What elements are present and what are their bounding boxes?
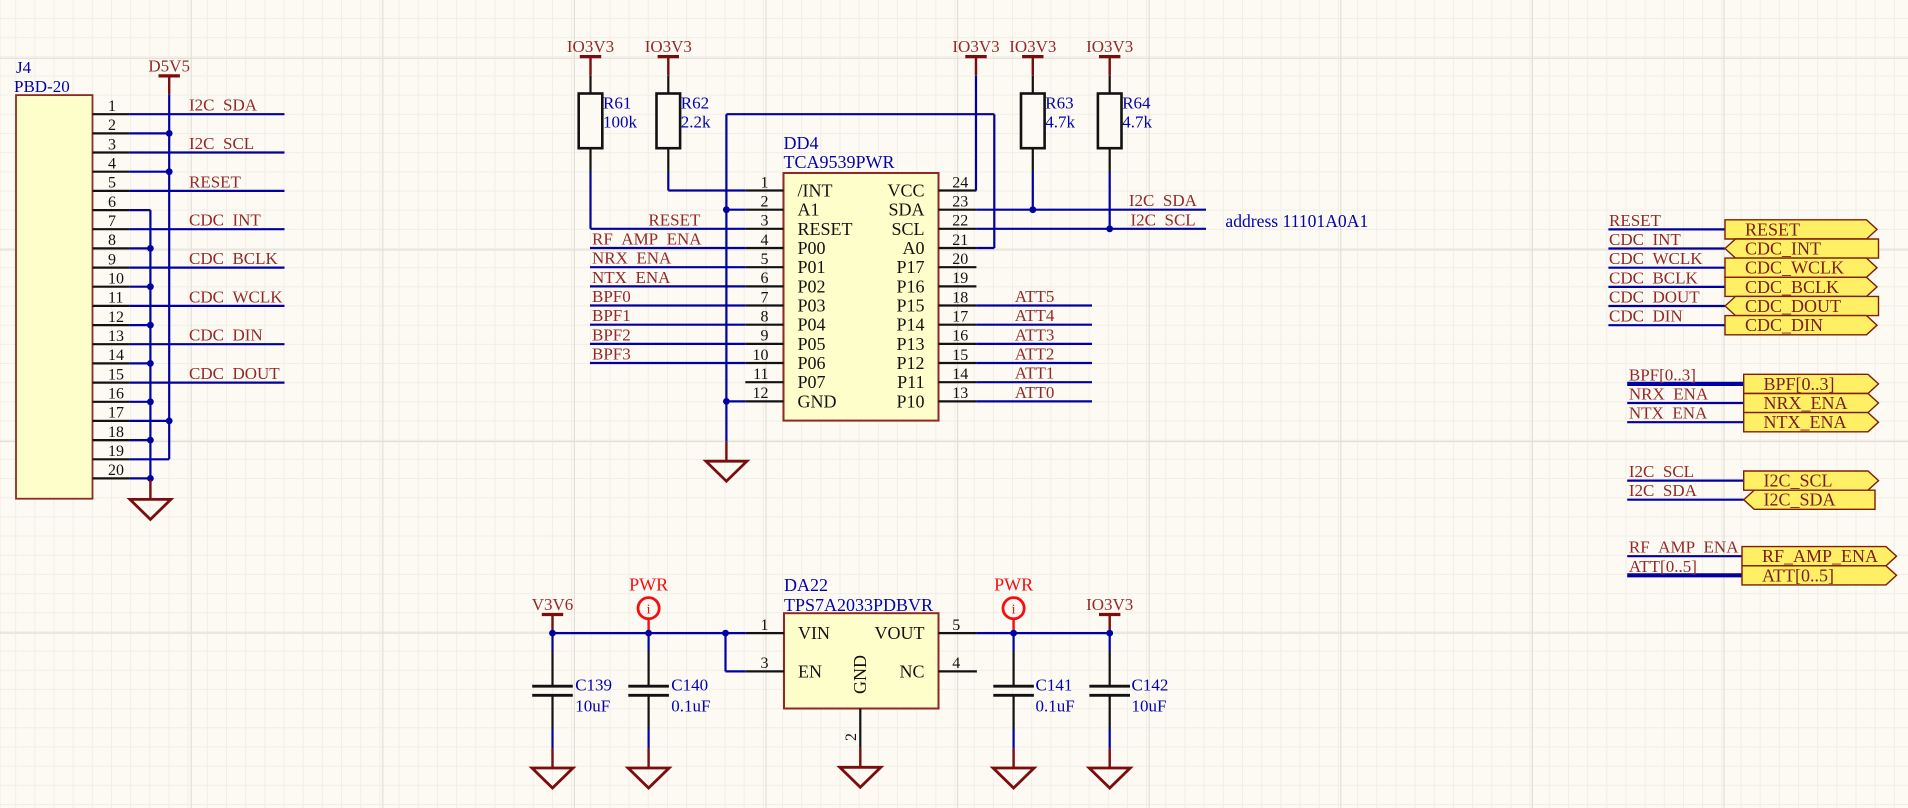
svg-text:9: 9 xyxy=(108,251,116,268)
capacitor C140 plates xyxy=(628,685,669,688)
svg-text:11: 11 xyxy=(108,290,123,307)
wire GND vertical rail from J4 pin 6 xyxy=(130,209,151,211)
svg-text:0.1uF: 0.1uF xyxy=(1036,697,1075,716)
svg-text:BPF[0..3]: BPF[0..3] xyxy=(1629,365,1696,384)
wire I2C_SDA from DD4 pin 23 xyxy=(976,209,1206,211)
wire DD4 pin 12 GND stub xyxy=(726,400,745,402)
wire to port NTX_ENA xyxy=(1627,421,1744,423)
svg-text:GND: GND xyxy=(850,655,870,694)
junction at pin 12 GND rail xyxy=(147,322,154,329)
svg-text:P12: P12 xyxy=(896,353,924,373)
wire I2C_SDA from J4 pin 1 xyxy=(130,113,285,115)
wire R61 to RESET net (DD4 pin 3) xyxy=(589,172,591,229)
junction at pin 18 GND rail xyxy=(147,437,154,444)
svg-text:7: 7 xyxy=(108,213,116,230)
svg-text:5: 5 xyxy=(108,175,116,192)
svg-text:I2C SCL: I2C SCL xyxy=(1131,210,1196,229)
svg-text:CDC_DOUT: CDC_DOUT xyxy=(1745,296,1841,316)
wire J4 pin 19 stub to D5V5 rail xyxy=(130,458,170,460)
junction at pin 4 rail xyxy=(166,168,173,175)
svg-text:RF AMP ENA: RF AMP ENA xyxy=(1629,538,1739,557)
DD4 pin 20 (P17) xyxy=(939,266,977,268)
svg-text:CDC DOUT: CDC DOUT xyxy=(189,364,280,383)
svg-text:2: 2 xyxy=(761,194,769,211)
svg-text:I2C_SCL: I2C_SCL xyxy=(1764,471,1833,491)
resistor R63 4.7k xyxy=(1032,76,1034,94)
port CDC_INT xyxy=(1725,239,1879,258)
svg-text:ATT[0..5]: ATT[0..5] xyxy=(1629,557,1697,576)
DD4 pin 5 (P01) xyxy=(745,266,783,268)
svg-text:BPF0: BPF0 xyxy=(592,287,631,306)
svg-text:R64: R64 xyxy=(1122,94,1151,113)
svg-text:VOUT: VOUT xyxy=(875,623,925,643)
wire R62 to /INT (DD4 pin 1) xyxy=(667,172,669,191)
svg-text:17: 17 xyxy=(108,405,124,422)
svg-text:C141: C141 xyxy=(1036,676,1073,695)
svg-text:1: 1 xyxy=(761,617,769,634)
wire to port I2C_SCL xyxy=(1627,480,1744,482)
connector J4 body xyxy=(16,95,93,499)
wire R63 to I2C_SDA xyxy=(1032,172,1034,210)
svg-text:I2C SDA: I2C SDA xyxy=(189,96,258,115)
svg-text:23: 23 xyxy=(952,194,968,211)
svg-text:3: 3 xyxy=(761,213,769,230)
svg-text:IO3V3: IO3V3 xyxy=(1086,37,1133,56)
svg-text:ATT2: ATT2 xyxy=(1015,345,1055,364)
svg-text:RESET: RESET xyxy=(648,210,701,229)
wire to DD4 pin 21 A0 xyxy=(976,247,994,249)
capacitor C139 lead lower xyxy=(551,697,553,730)
svg-text:15: 15 xyxy=(952,347,968,364)
svg-text:ATT[0..5]: ATT[0..5] xyxy=(1762,565,1834,585)
wire J4 pin 20 to GND rail xyxy=(130,477,151,479)
J4 pin 11 xyxy=(93,305,130,307)
svg-text:address 11101A0A1: address 11101A0A1 xyxy=(1225,211,1368,231)
svg-text:9: 9 xyxy=(761,328,769,345)
DA22 pin 3 EN xyxy=(746,670,784,672)
junction at pin 8 GND rail xyxy=(147,245,154,252)
svg-text:PBD-20: PBD-20 xyxy=(14,77,70,96)
svg-text:i: i xyxy=(647,603,651,618)
svg-text:P03: P03 xyxy=(798,296,826,316)
ground symbol below J4 xyxy=(130,480,171,519)
svg-text:I2C SCL: I2C SCL xyxy=(1629,462,1694,481)
svg-text:13: 13 xyxy=(108,328,124,345)
J4 pin 15 xyxy=(93,382,130,384)
svg-text:10: 10 xyxy=(108,271,124,288)
junction at pin 2 rail xyxy=(166,130,173,137)
wire GND net vertical at x726 xyxy=(725,114,727,442)
svg-text:VCC: VCC xyxy=(887,181,924,201)
wire to port RESET xyxy=(1608,228,1725,230)
DD4 pin 2 (A1) xyxy=(745,209,783,211)
junction V3V6 xyxy=(549,630,556,637)
wire RESET from J4 pin 5 xyxy=(130,190,285,192)
svg-text:17: 17 xyxy=(952,309,968,326)
J4 pin 7 xyxy=(93,228,130,230)
DA22 pin 1 VIN xyxy=(746,632,784,634)
port RESET xyxy=(1725,220,1877,239)
junction IO3V3 out xyxy=(1106,630,1113,637)
svg-text:P14: P14 xyxy=(896,315,924,335)
svg-text:CDC DIN: CDC DIN xyxy=(189,326,263,345)
svg-text:5: 5 xyxy=(952,617,960,634)
port CDC_DOUT xyxy=(1725,296,1879,315)
wire J4 pin 14 to GND rail xyxy=(130,362,151,364)
wire ATT1 from DD4 pin 14 xyxy=(976,381,1092,383)
port BPF[0..3] xyxy=(1744,374,1879,393)
DD4 pin 22 (SCL) xyxy=(939,228,977,230)
svg-text:3: 3 xyxy=(761,655,769,672)
capacitor C142 lead lower xyxy=(1109,697,1111,730)
svg-text:6: 6 xyxy=(761,270,769,287)
svg-text:BPF3: BPF3 xyxy=(592,345,631,364)
svg-text:D5V5: D5V5 xyxy=(148,56,190,75)
wire CDC_INT from J4 pin 7 xyxy=(130,228,285,230)
svg-text:SDA: SDA xyxy=(888,200,924,220)
DD4 pin 3 (RESET) xyxy=(745,228,783,230)
svg-text:10: 10 xyxy=(753,347,769,364)
svg-text:I2C SCL: I2C SCL xyxy=(189,134,254,153)
svg-text:4.7k: 4.7k xyxy=(1122,113,1152,132)
svg-text:P11: P11 xyxy=(897,372,924,392)
svg-text:RESET: RESET xyxy=(798,219,853,239)
svg-text:RF_AMP_ENA: RF_AMP_ENA xyxy=(1762,546,1878,566)
svg-text:P16: P16 xyxy=(896,276,924,296)
svg-text:19: 19 xyxy=(952,270,968,287)
svg-text:100k: 100k xyxy=(603,113,638,132)
wire RF_AMP_ENA to DD4 pin 4 xyxy=(590,247,745,249)
ground below C140 xyxy=(628,749,669,788)
DD4 pin 14 (P11) xyxy=(939,381,977,383)
wire DD4 pin 2 A1 stub xyxy=(726,209,745,211)
svg-text:4.7k: 4.7k xyxy=(1045,113,1075,132)
capacitor C141 lead lower xyxy=(1012,697,1014,730)
wire BPF3 to DD4 pin 10 xyxy=(590,362,745,364)
svg-text:/INT: /INT xyxy=(798,181,833,201)
junction at pin 20 GND rail xyxy=(147,475,154,482)
wire to port CDC_INT xyxy=(1608,247,1725,249)
svg-text:RESET: RESET xyxy=(189,172,242,191)
svg-text:A0: A0 xyxy=(903,238,925,258)
svg-text:1: 1 xyxy=(108,98,116,115)
svg-text:CDC WCLK: CDC WCLK xyxy=(189,287,283,306)
junction at pin 10 GND rail xyxy=(147,283,154,290)
wire J4 pin 18 to GND rail xyxy=(130,439,151,441)
svg-text:20: 20 xyxy=(952,251,968,268)
svg-text:CDC DOUT: CDC DOUT xyxy=(1609,288,1700,307)
svg-text:14: 14 xyxy=(108,347,124,364)
wire BPF0 to DD4 pin 7 xyxy=(590,304,745,306)
J4 pin 14 xyxy=(93,362,130,364)
DD4 pin 24 (VCC) xyxy=(939,189,977,191)
ground below C139 xyxy=(532,749,573,788)
DD4 pin 17 (P14) xyxy=(939,324,977,326)
svg-text:NTX ENA: NTX ENA xyxy=(1629,404,1708,423)
DD4 pin 8 (P04) xyxy=(745,324,783,326)
svg-text:ATT3: ATT3 xyxy=(1015,325,1055,344)
svg-text:CDC BCLK: CDC BCLK xyxy=(189,249,279,268)
svg-text:VIN: VIN xyxy=(798,623,830,643)
J4 pin 20 xyxy=(93,477,130,479)
capacitor C139 plates xyxy=(532,685,573,688)
svg-text:P07: P07 xyxy=(798,372,826,392)
ground below C141 xyxy=(993,749,1034,788)
svg-text:P10: P10 xyxy=(896,391,924,411)
DD4 pin 19 (P16) xyxy=(939,285,977,287)
IC DA22 body xyxy=(784,613,939,708)
svg-text:C142: C142 xyxy=(1132,676,1169,695)
J4 pin 13 xyxy=(93,343,130,345)
wire CDC_WCLK from J4 pin 11 xyxy=(130,305,285,307)
svg-text:2: 2 xyxy=(843,733,860,741)
J4 pin 16 xyxy=(93,401,130,403)
svg-text:2.2k: 2.2k xyxy=(681,113,711,132)
J4 pin 18 xyxy=(93,439,130,441)
svg-text:CDC INT: CDC INT xyxy=(1609,230,1681,249)
wire J4 pin 17 to D5V5 rail xyxy=(130,420,170,422)
junction R63 SDA xyxy=(1029,206,1036,213)
wire CDC_BCLK from J4 pin 9 xyxy=(130,267,285,269)
DD4 pin 10 (P06) xyxy=(745,362,783,364)
svg-text:IO3V3: IO3V3 xyxy=(1009,37,1056,56)
wire to port I2C_SDA xyxy=(1627,499,1744,501)
svg-text:15: 15 xyxy=(108,366,124,383)
wire I2C_SCL from J4 pin 3 xyxy=(130,151,285,153)
DA22 pin 2 GND lead xyxy=(859,709,861,748)
wire J4 pin 12 to GND rail xyxy=(130,324,151,326)
svg-text:22: 22 xyxy=(952,213,968,230)
wire NRX_ENA to DD4 pin 5 xyxy=(590,266,745,268)
svg-text:12: 12 xyxy=(753,385,769,402)
svg-text:8: 8 xyxy=(108,232,116,249)
svg-text:R63: R63 xyxy=(1045,94,1073,113)
capacitor C140 lead lower xyxy=(647,697,649,730)
wire VOUT to IO3V3 xyxy=(977,632,1110,634)
port I2C_SDA xyxy=(1744,490,1875,509)
J4 pin 12 xyxy=(93,324,130,326)
svg-text:5: 5 xyxy=(761,251,769,268)
J4 pin 17 xyxy=(93,420,130,422)
junction PWR2 xyxy=(1010,630,1017,637)
svg-text:P15: P15 xyxy=(896,296,924,316)
svg-text:18: 18 xyxy=(952,289,968,306)
svg-text:0.1uF: 0.1uF xyxy=(671,697,710,716)
svg-text:ATT5: ATT5 xyxy=(1015,287,1055,306)
wire to port CDC_WCLK xyxy=(1608,267,1725,269)
svg-text:CDC DIN: CDC DIN xyxy=(1609,307,1683,326)
svg-text:CDC WCLK: CDC WCLK xyxy=(1609,249,1703,268)
svg-text:A1: A1 xyxy=(798,200,820,220)
J4 pin 19 xyxy=(93,458,130,460)
port NRX_ENA xyxy=(1744,394,1879,413)
svg-text:RF AMP ENA: RF AMP ENA xyxy=(592,230,702,249)
svg-text:P00: P00 xyxy=(798,238,826,258)
wire J4 pin 16 to GND rail xyxy=(130,401,151,403)
svg-text:IO3V3: IO3V3 xyxy=(952,37,999,56)
svg-text:C140: C140 xyxy=(671,676,708,695)
svg-text:SCL: SCL xyxy=(891,219,924,239)
wire J4 pin 10 to GND rail xyxy=(130,286,151,288)
J4 pin 8 xyxy=(93,247,130,249)
svg-text:2: 2 xyxy=(108,117,116,134)
wire EN branch xyxy=(724,633,726,671)
svg-text:RESET: RESET xyxy=(1609,211,1662,230)
svg-text:PWR: PWR xyxy=(994,575,1033,595)
resistor R62 2.2k xyxy=(667,76,669,94)
capacitor C139 lead upper xyxy=(551,633,553,651)
J4 pin 9 xyxy=(93,267,130,269)
capacitor C141 lead upper xyxy=(1012,633,1014,651)
DA22 pin 4 NC xyxy=(939,670,977,672)
wire NTX_ENA to DD4 pin 6 xyxy=(590,285,745,287)
svg-text:8: 8 xyxy=(761,309,769,326)
DD4 pin 21 (A0) xyxy=(939,247,977,249)
svg-text:P01: P01 xyxy=(798,257,826,277)
capacitor C142 plates xyxy=(1089,685,1130,688)
svg-text:R62: R62 xyxy=(681,94,709,113)
wire to port NRX_ENA xyxy=(1627,402,1744,404)
DD4 pin 12 (GND) xyxy=(745,400,783,402)
svg-text:TPS7A2033PDBVR: TPS7A2033PDBVR xyxy=(784,595,933,615)
junction at pin 16 GND rail xyxy=(147,398,154,405)
svg-text:CDC_DIN: CDC_DIN xyxy=(1745,315,1823,335)
junction at pin 17 rail xyxy=(166,418,173,425)
wire to port RF_AMP_ENA xyxy=(1627,555,1742,557)
DD4 pin 15 (P12) xyxy=(939,362,977,364)
svg-text:NRX ENA: NRX ENA xyxy=(592,249,672,268)
svg-text:20: 20 xyxy=(108,462,124,479)
bus to port BPF[0..3] xyxy=(1627,382,1744,386)
bus to port ATT[0..5] xyxy=(1627,573,1742,577)
port CDC_WCLK xyxy=(1725,258,1877,277)
svg-text:16: 16 xyxy=(108,386,124,403)
DD4 pin 13 (P10) xyxy=(939,400,977,402)
port CDC_DIN xyxy=(1725,316,1877,335)
junction R64 SCL xyxy=(1106,225,1113,232)
svg-text:V3V6: V3V6 xyxy=(532,595,574,614)
svg-text:19: 19 xyxy=(108,443,124,460)
junction PWR1 xyxy=(645,630,652,637)
svg-text:NRX ENA: NRX ENA xyxy=(1629,385,1709,404)
svg-text:P06: P06 xyxy=(798,353,826,373)
svg-text:IO3V3: IO3V3 xyxy=(1086,595,1133,614)
J4 pin 1 xyxy=(93,113,130,115)
ground below DA22 xyxy=(840,748,881,787)
DD4 pin 23 (SDA) xyxy=(939,209,977,211)
svg-text:TCA9539PWR: TCA9539PWR xyxy=(784,152,895,172)
svg-text:12: 12 xyxy=(108,309,124,326)
resistor R61 100k xyxy=(589,76,591,94)
junction A1/GND rail xyxy=(723,206,730,213)
svg-text:4: 4 xyxy=(952,655,960,672)
svg-text:NTX_ENA: NTX_ENA xyxy=(1764,412,1847,432)
wire BPF1 to DD4 pin 8 xyxy=(590,324,745,326)
svg-text:BPF2: BPF2 xyxy=(592,325,631,344)
wire CDC_DOUT from J4 pin 15 xyxy=(130,382,285,384)
wire GND net top horizontal xyxy=(726,113,994,115)
svg-text:CDC_WCLK: CDC_WCLK xyxy=(1745,258,1844,278)
wire BPF2 to DD4 pin 9 xyxy=(590,343,745,345)
svg-text:24: 24 xyxy=(952,174,968,191)
wire A0 branch vertical xyxy=(993,114,995,248)
wire V3V6 to DA22 VIN xyxy=(553,632,746,634)
port ATT[0..5] xyxy=(1742,566,1897,585)
DD4 pin 4 (P00) xyxy=(745,247,783,249)
wire ATT3 from DD4 pin 16 xyxy=(976,343,1092,345)
svg-text:BPF1: BPF1 xyxy=(592,306,631,325)
svg-text:ATT0: ATT0 xyxy=(1015,383,1055,402)
capacitor C141 plates xyxy=(993,685,1034,688)
wire ATT2 from DD4 pin 15 xyxy=(976,362,1092,364)
svg-text:7: 7 xyxy=(761,289,769,306)
svg-text:4: 4 xyxy=(761,232,769,249)
svg-text:1: 1 xyxy=(761,174,769,191)
svg-text:ATT4: ATT4 xyxy=(1015,306,1055,325)
wire D5V5 vertical rail xyxy=(168,94,170,459)
wire ATT0 from DD4 pin 13 xyxy=(976,400,1092,402)
svg-text:NTX ENA: NTX ENA xyxy=(592,268,671,287)
capacitor C140 lead upper xyxy=(647,633,649,651)
DA22 pin 5 VOUT xyxy=(939,632,977,634)
svg-text:NRX_ENA: NRX_ENA xyxy=(1764,393,1848,413)
J4 pin 3 xyxy=(93,151,130,153)
port I2C_SCL xyxy=(1744,471,1879,490)
DD4 pin 18 (P15) xyxy=(939,304,977,306)
junction GND pin 12 rail xyxy=(723,398,730,405)
svg-text:P17: P17 xyxy=(896,257,924,277)
J4 pin 6 xyxy=(93,209,130,211)
capacitor C142 lead upper xyxy=(1109,633,1111,651)
svg-text:ATT1: ATT1 xyxy=(1015,364,1055,383)
svg-text:R61: R61 xyxy=(603,94,631,113)
svg-text:PWR: PWR xyxy=(629,575,668,595)
svg-text:J4: J4 xyxy=(16,58,32,77)
svg-text:P02: P02 xyxy=(798,276,826,296)
svg-text:21: 21 xyxy=(952,232,968,249)
svg-text:CDC_BCLK: CDC_BCLK xyxy=(1745,277,1839,297)
svg-text:4: 4 xyxy=(108,156,116,173)
DD4 pin 1 (/INT) xyxy=(745,189,783,191)
svg-text:IO3V3: IO3V3 xyxy=(645,37,692,56)
svg-text:IO3V3: IO3V3 xyxy=(567,37,614,56)
resistor R64 4.7k xyxy=(1109,76,1111,94)
J4 pin 2 xyxy=(93,132,130,134)
port RF_AMP_ENA xyxy=(1742,547,1897,566)
svg-text:GND: GND xyxy=(798,391,837,411)
svg-text:C139: C139 xyxy=(575,676,612,695)
svg-text:DA22: DA22 xyxy=(784,575,828,595)
DD4 pin 7 (P03) xyxy=(745,304,783,306)
svg-text:6: 6 xyxy=(108,194,116,211)
svg-text:CDC BCLK: CDC BCLK xyxy=(1609,268,1699,287)
svg-text:NC: NC xyxy=(899,661,924,681)
wire J4 pin 2 to D5V5 rail xyxy=(130,132,170,134)
svg-text:CDC INT: CDC INT xyxy=(189,211,261,230)
port CDC_BCLK xyxy=(1725,277,1877,296)
wire J4 pin 4 to D5V5 rail xyxy=(130,171,170,173)
wire ATT4 from DD4 pin 17 xyxy=(976,324,1092,326)
wire to port CDC_BCLK xyxy=(1608,286,1725,288)
svg-text:P04: P04 xyxy=(798,315,826,335)
svg-text:RESET: RESET xyxy=(1745,219,1800,239)
svg-text:P05: P05 xyxy=(798,334,826,354)
port NTX_ENA xyxy=(1744,413,1879,432)
svg-text:18: 18 xyxy=(108,424,124,441)
svg-text:3: 3 xyxy=(108,136,116,153)
svg-text:10uF: 10uF xyxy=(1132,697,1167,716)
wire I2C_SCL from DD4 pin 22 xyxy=(976,228,1206,230)
